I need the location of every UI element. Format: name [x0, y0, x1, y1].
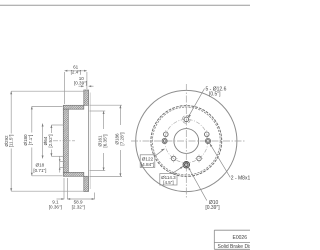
bolt circle (dash-dot): [165, 119, 208, 162]
lug hole 1 (top, 90deg): [184, 117, 189, 122]
friction ring bottom (section cut): [84, 176, 89, 191]
svg-text:[0.36"]: [0.36"]: [49, 204, 62, 209]
svg-text:[2.32"]: [2.32"]: [72, 204, 85, 209]
svg-text:E0026: E0026: [233, 235, 248, 241]
svg-text:[0.39"]: [0.39"]: [74, 81, 87, 86]
svg-text:[2.4"]: [2.4"]: [71, 70, 82, 75]
svg-text:[0.71"]: [0.71"]: [33, 168, 46, 173]
lug hole 2 (162deg): [164, 130, 169, 138]
lug hole 5 (18deg): [205, 130, 210, 138]
svg-text:Ø122: Ø122: [142, 156, 154, 161]
hat edge circle outer: [151, 106, 222, 177]
boxed label dia114.3: [160, 166, 183, 185]
svg-text:[7.1"]: [7.1"]: [28, 135, 33, 146]
svg-text:2 - M8x1.25: 2 - M8x1.25: [231, 176, 250, 182]
lug hole 1 spot face arc: [182, 116, 190, 124]
center hole: [174, 129, 199, 154]
svg-text:[4.84"]: [4.84"]: [141, 162, 154, 167]
vertical centerline: [185, 84, 187, 198]
hat mounting wall (section cut): [63, 109, 68, 172]
table borders: [214, 230, 250, 249]
leader dia10 hole: [188, 167, 207, 201]
svg-text:[7.28"]: [7.28"]: [119, 132, 124, 145]
hat edge circle inner: [152, 107, 220, 175]
lug hole 3 (234deg): [170, 155, 178, 163]
svg-text:[2.52"]: [2.52"]: [48, 134, 53, 147]
dimension G (overall height 61): [65, 71, 87, 104]
dimension I (wall thickness 9.1): [57, 178, 68, 199]
disc face chamfer line: [89, 93, 91, 190]
leader 2 - M8 holes: [210, 144, 231, 178]
svg-text:[0.5"]: [0.5"]: [209, 92, 221, 98]
leader 5 - dia12.6 lug holes: [188, 89, 205, 118]
svg-text:[4.5"]: [4.5"]: [163, 180, 173, 185]
boxed label dia122: [140, 149, 164, 168]
dimension A (outer diameter): [11, 91, 83, 191]
friction ring top (section cut): [84, 90, 89, 105]
hat flange bottom (section cut): [63, 172, 84, 176]
horizontal centerline: [131, 140, 246, 142]
M8 hole left (180deg): [162, 138, 167, 143]
section centerline: [53, 140, 75, 142]
dimension J (hat depth 58.9): [67, 193, 94, 200]
drawing frame top border: [0, 4, 250, 6]
svg-text:[6.35"]: [6.35"]: [103, 134, 108, 147]
dimension B2 (hub pilot diameter): [42, 124, 44, 159]
svg-text:[11.5"]: [11.5"]: [9, 135, 14, 148]
dimension E (hat step diameter): [90, 111, 106, 171]
dimension B (hat flange diameter): [32, 106, 63, 175]
disc right face line: [88, 90, 90, 192]
outer circle (disc OD): [136, 90, 237, 191]
svg-text:Solid Brake Disc: Solid Brake Disc: [218, 244, 251, 250]
lug hole 4 (306deg): [195, 155, 203, 163]
hat flange top (section cut): [63, 105, 84, 109]
dimension H (disc thickness 10): [79, 85, 94, 87]
dimension F (friction band inner diameter): [90, 105, 123, 176]
svg-text:[0.39"]: [0.39"]: [205, 205, 220, 211]
dimension C (center hole diameter): [51, 125, 63, 156]
dimension D (hub register 18): [60, 157, 66, 173]
M8 hole right (0deg): [205, 138, 210, 143]
oil/service hole dia10 (bottom, 270deg): [183, 162, 189, 168]
